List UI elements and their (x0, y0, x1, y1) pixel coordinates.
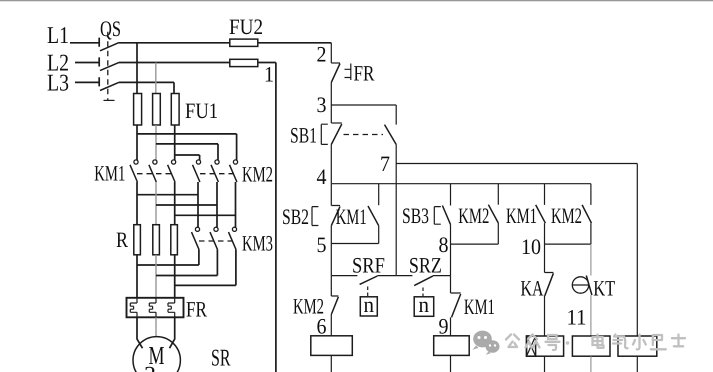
svg-text:11: 11 (567, 305, 587, 330)
svg-text:SRZ: SRZ (409, 253, 442, 278)
svg-text:L1: L1 (47, 23, 69, 49)
svg-text:R: R (116, 227, 128, 252)
svg-text:KM1: KM1 (94, 161, 125, 186)
svg-text:2: 2 (317, 42, 327, 67)
svg-text:n: n (419, 292, 430, 317)
svg-text:KM1: KM1 (464, 294, 495, 319)
svg-text:KM1: KM1 (506, 203, 537, 228)
svg-text:5: 5 (317, 232, 327, 257)
svg-text:FR: FR (354, 61, 375, 86)
svg-text:9: 9 (439, 314, 449, 339)
svg-text:QS: QS (100, 16, 121, 41)
svg-text:KA: KA (521, 276, 544, 301)
svg-text:KM2: KM2 (242, 162, 273, 187)
svg-text:10: 10 (521, 234, 541, 259)
svg-text:KM3: KM3 (242, 231, 273, 256)
svg-text:SB2: SB2 (282, 204, 309, 229)
svg-text:KT: KT (593, 276, 615, 301)
svg-text:SR: SR (211, 346, 231, 372)
svg-text:7: 7 (380, 151, 390, 176)
svg-text:FU1: FU1 (185, 98, 218, 123)
svg-text:n: n (364, 292, 375, 317)
svg-text:3: 3 (317, 92, 327, 117)
svg-text:FR: FR (186, 297, 207, 322)
svg-text:FU2: FU2 (229, 14, 263, 39)
svg-text:SB1: SB1 (290, 123, 317, 148)
svg-text:KM1: KM1 (336, 204, 367, 229)
svg-text:L3: L3 (47, 71, 69, 97)
svg-text:1: 1 (264, 62, 274, 87)
svg-text:4: 4 (317, 164, 327, 189)
svg-text:KM2: KM2 (551, 203, 582, 228)
svg-text:SB3: SB3 (402, 203, 429, 228)
svg-text:KM2: KM2 (458, 203, 489, 228)
svg-text:6: 6 (317, 314, 327, 339)
svg-text:3~: 3~ (144, 362, 169, 372)
svg-text:SRF: SRF (352, 253, 385, 278)
